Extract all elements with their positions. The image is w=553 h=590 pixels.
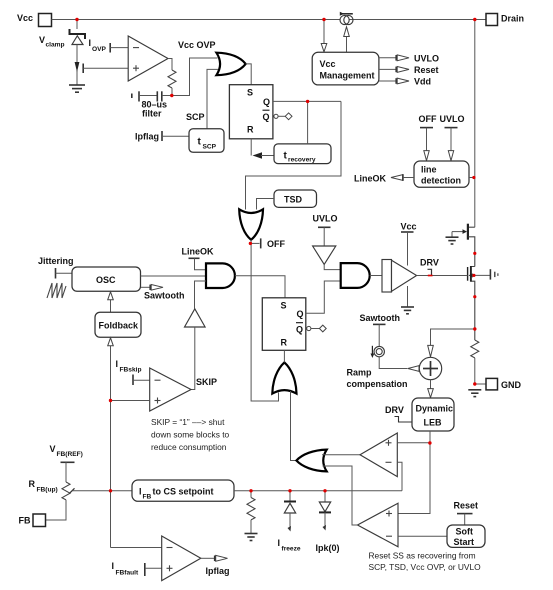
Ipflag input to tSCP: [135, 131, 189, 142]
output Vdd: [379, 77, 431, 87]
op-amp Vcc OVP comparator: [128, 36, 168, 81]
svg-text:down some blocks to: down some blocks to: [151, 430, 230, 440]
ground (driver): [401, 307, 414, 314]
input IFBfault: [112, 561, 162, 577]
resistor (OVP filter): [168, 70, 176, 88]
svg-text:I: I: [278, 538, 281, 548]
wire AND out to latch2 S: [235, 276, 285, 298]
op-amp CS comparator: [360, 433, 397, 477]
op-amp SKIP comparator: [150, 368, 217, 411]
svg-text:Vcc: Vcc: [401, 222, 417, 232]
svg-text:Start: Start: [454, 537, 475, 547]
svg-text:Reset: Reset: [454, 501, 479, 511]
svg-text:FBskip: FBskip: [120, 367, 142, 374]
wire resistor to GND node: [474, 358, 476, 384]
svg-text:Q: Q: [263, 97, 270, 107]
svg-text:FB(up): FB(up): [37, 487, 58, 494]
OR gate CS (points left): [296, 450, 326, 472]
svg-text:OSC: OSC: [96, 275, 116, 285]
wire up-OR right input from CS-OR: [291, 391, 297, 461]
output Reset: [379, 65, 439, 75]
svg-text:I: I: [116, 359, 119, 369]
wire node to OR gate top input: [172, 58, 218, 96]
svg-text:SCP, TSD, Vcc OVP, or UVLO: SCP, TSD, Vcc OVP, or UVLO: [369, 562, 482, 572]
input UVLO tap: [313, 214, 338, 247]
svg-text:Soft: Soft: [456, 527, 474, 537]
svg-text:Q: Q: [297, 309, 304, 319]
wire zener branch: [76, 20, 78, 30]
block Vcc Management: [312, 52, 379, 85]
svg-text:FB(REF): FB(REF): [57, 451, 83, 458]
svg-text:OFF: OFF: [419, 114, 437, 124]
wire SCP to OR bottom input: [186, 69, 218, 128]
svg-text:SCP: SCP: [203, 144, 217, 151]
output Sawtooth arrow: [141, 285, 185, 301]
wire line detection to drain rail: [469, 177, 475, 179]
Vcc pin pad: [17, 13, 52, 27]
latch 1 (fault latch): [229, 85, 273, 139]
wire OSC to AND gate: [141, 275, 207, 277]
svg-text:I: I: [139, 487, 142, 497]
svg-text:DRV: DRV: [420, 258, 439, 268]
node tap to comparator plus: [83, 64, 128, 74]
node DRV tap at LEB: [385, 405, 412, 422]
arrow t_recovery to R: [253, 152, 275, 159]
svg-text:SKIP = “1” ––> shut: SKIP = “1” ––> shut: [151, 417, 225, 427]
summing junction: [419, 357, 441, 379]
svg-text:I: I: [112, 561, 115, 571]
wire driver output to MOSFET gate: [417, 275, 468, 277]
wire IFB setpoint line: [234, 490, 402, 492]
svg-text:SKIP: SKIP: [196, 377, 217, 387]
wire TSD to OR gate: [257, 199, 275, 210]
svg-text:compensation: compensation: [347, 379, 408, 389]
svg-text:Foldback: Foldback: [99, 321, 140, 331]
svg-text:V: V: [39, 35, 45, 45]
svg-text:Reset SS as recovering from: Reset SS as recovering from: [369, 551, 476, 561]
wire driver to ground: [407, 286, 409, 307]
wire FB vertical to Ipflag comparator: [111, 547, 162, 549]
ground (Vcc clamp): [69, 85, 85, 92]
svg-text:UVLO: UVLO: [313, 214, 338, 224]
wire buffer to SKIP comparator out: [191, 327, 195, 390]
svg-text:S: S: [247, 88, 253, 98]
svg-text:Sawtooth: Sawtooth: [144, 291, 185, 301]
output LineOK arrow: [354, 174, 414, 184]
block Dynamic LEB: [412, 398, 454, 431]
svg-text:filter: filter: [142, 109, 162, 119]
wire CS minus to setpoint line: [397, 462, 402, 491]
wire drain vertical: [474, 20, 476, 228]
timer t_recovery box: [274, 144, 331, 164]
node DRV: [420, 258, 439, 276]
svg-text:LEB: LEB: [424, 418, 443, 428]
block IFB to CS setpoint: [132, 480, 234, 501]
input Jittering: [38, 256, 74, 279]
svg-text:detection: detection: [421, 176, 461, 186]
svg-text:Jittering: Jittering: [38, 256, 74, 266]
svg-text:LineOK: LineOK: [182, 247, 215, 257]
current source ramp: [371, 346, 385, 358]
input Vcc of driver: [401, 222, 417, 266]
wire Vcc management to current source (up arrow): [344, 27, 350, 53]
svg-text:OFF: OFF: [267, 239, 285, 249]
svg-text:clamp: clamp: [46, 42, 65, 49]
svg-text:FB: FB: [143, 494, 152, 501]
resistor to ground on setpoint line: [247, 491, 255, 533]
wire resistor to FB pad: [46, 500, 67, 520]
svg-text:line: line: [421, 165, 437, 175]
svg-text:SCP: SCP: [186, 112, 205, 122]
wire Soft Start to SS minus: [398, 535, 447, 537]
arrow into summer from sense branch: [428, 345, 434, 357]
wire Vcc top rail: [52, 19, 487, 21]
note SKIP caption: [151, 417, 230, 452]
ground (setpoint divider): [245, 534, 258, 541]
svg-text:Vcc: Vcc: [17, 13, 33, 23]
svg-text:Drain: Drain: [501, 14, 524, 24]
latch2 Qbar bubble and diamond: [307, 325, 327, 332]
wire zener to ground with current arrow: [75, 45, 80, 85]
ground (JFET gate): [446, 237, 459, 244]
node OFF tap: [251, 238, 285, 249]
wire current source to summer arrow: [379, 357, 419, 372]
note Reset SS caption: [369, 551, 482, 573]
block OSC: [72, 267, 141, 291]
latch 2 (PWM latch): [262, 298, 306, 351]
FB pin pad: [19, 514, 46, 527]
OR gate fault (points down): [239, 209, 263, 240]
junction dots (red): [75, 18, 476, 493]
svg-text:GND: GND: [501, 380, 522, 390]
svg-text:DRV: DRV: [385, 405, 404, 415]
svg-text:freeze: freeze: [282, 546, 301, 553]
op-amp SS comparator: [358, 503, 399, 547]
transistor startup JFET: [452, 224, 475, 267]
svg-text:recovery: recovery: [288, 157, 316, 164]
wire CS comparator out to OR top input: [322, 454, 360, 456]
transistor power MOSFET: [468, 266, 475, 340]
AND gate driver enable: [341, 263, 370, 288]
OR gate reset (points up): [272, 362, 296, 393]
svg-text:Management: Management: [320, 71, 375, 81]
block Foldback: [95, 312, 141, 337]
buffer SKIP: [185, 309, 206, 327]
svg-text:UVLO: UVLO: [440, 114, 465, 124]
GND pin pad: [475, 378, 522, 390]
svg-text:S: S: [281, 301, 287, 311]
wire LEB out to CS plus and SS plus: [398, 431, 430, 514]
wire AND to driver: [370, 275, 382, 277]
wire latch1 R down: [250, 139, 252, 156]
wire SS comparator out to OR bottom input: [323, 466, 358, 525]
zener diode Vclamp: [39, 29, 107, 53]
arrow FB line to Foldback: [108, 338, 114, 548]
svg-text:Vcc OVP: Vcc OVP: [178, 40, 216, 50]
wire UVLO diode to AND input: [324, 264, 340, 269]
diode Ipk(0): [316, 491, 340, 553]
input UVLO to line detection: [440, 114, 465, 161]
wire up-OR out to latch2 R: [283, 350, 285, 362]
svg-text:Ipk(0): Ipk(0): [316, 543, 340, 553]
svg-text:Vcc: Vcc: [320, 59, 336, 69]
diode UVLO pulldown: [313, 246, 336, 264]
svg-text:Q: Q: [296, 325, 303, 335]
svg-text:FB: FB: [19, 516, 31, 526]
wire FB line to SKIP plus: [111, 400, 150, 402]
wire latch2 Q to AND drv: [306, 281, 341, 313]
block TSD: [274, 190, 317, 207]
latch1 Qbar bubble and diamond: [274, 113, 292, 120]
output UVLO: [379, 54, 439, 64]
svg-text:I: I: [89, 38, 92, 48]
svg-text:Sawtooth: Sawtooth: [360, 313, 401, 323]
OR gate U-OVP: [216, 53, 245, 75]
svg-text:Dynamic: Dynamic: [416, 404, 454, 414]
input IFBskip: [116, 359, 150, 385]
tap from divider to IFB line: [70, 488, 133, 493]
wire latch1 Q to recovery timer and to OR-OFF: [246, 101, 342, 209]
svg-text:FBfault: FBfault: [116, 570, 140, 577]
capacitor 80-us filter: [132, 91, 172, 118]
svg-text:V: V: [50, 444, 56, 454]
timer tSCP box: [189, 129, 224, 153]
wire comparator out to resistor: [168, 59, 172, 71]
driver totem pole: [382, 260, 417, 293]
svg-text:TSD: TSD: [284, 195, 303, 205]
svg-text:reduce consumption: reduce consumption: [151, 442, 227, 452]
wire OR out to latch S: [246, 64, 252, 85]
wire skip buffer to AND bottom input: [195, 281, 207, 309]
svg-text:UVLO: UVLO: [414, 54, 439, 64]
arrow summer to LEB: [428, 380, 434, 398]
svg-text:Vdd: Vdd: [414, 77, 431, 87]
current source on Vcc rail: [340, 12, 353, 25]
wire branch to ramp summer: [431, 329, 475, 345]
svg-text:Ipflag: Ipflag: [206, 566, 230, 576]
node IOVP tap to comparator minus: [110, 43, 128, 53]
svg-text:Ipflag: Ipflag: [135, 132, 159, 142]
svg-text:to CS setpoint: to CS setpoint: [153, 487, 214, 497]
AND gate clock: [206, 263, 235, 288]
block line detection: [414, 161, 469, 187]
op-amp Ipflag comparator: [162, 536, 201, 581]
input Sawtooth tap: [360, 313, 401, 346]
label Ramp compensation: [347, 368, 408, 390]
svg-text:R: R: [281, 338, 288, 348]
svg-text:Q: Q: [263, 112, 270, 122]
output Ipflag arrow: [201, 555, 230, 576]
input VFB(REF): [50, 444, 83, 482]
ground (sense): [468, 390, 481, 397]
input OFF to line detection: [419, 114, 437, 161]
diode Ifreeze: [278, 491, 301, 553]
svg-text:R: R: [29, 479, 36, 489]
resistor sense: [471, 340, 479, 358]
block Soft Start: [447, 525, 485, 547]
svg-text:LineOK: LineOK: [354, 174, 387, 184]
input LineOK tap at AND: [182, 247, 215, 270]
sawtooth waveform glyph: [47, 283, 66, 298]
svg-text:R: R: [247, 125, 254, 135]
input Reset: [454, 501, 479, 526]
resistor RFB(up): [29, 479, 71, 500]
svg-text:Ramp: Ramp: [347, 368, 373, 378]
Drain pin pad: [486, 14, 524, 26]
wire resistor to node: [171, 88, 173, 96]
sense tap at MOSFET source: [472, 269, 498, 279]
wire rail to Vcc management (down arrow): [321, 20, 327, 52]
wire OFF vertical to lower OR: [251, 240, 278, 401]
arrow Foldback to OSC: [108, 292, 114, 312]
svg-text:OVP: OVP: [92, 46, 107, 53]
svg-text:Reset: Reset: [414, 65, 439, 75]
